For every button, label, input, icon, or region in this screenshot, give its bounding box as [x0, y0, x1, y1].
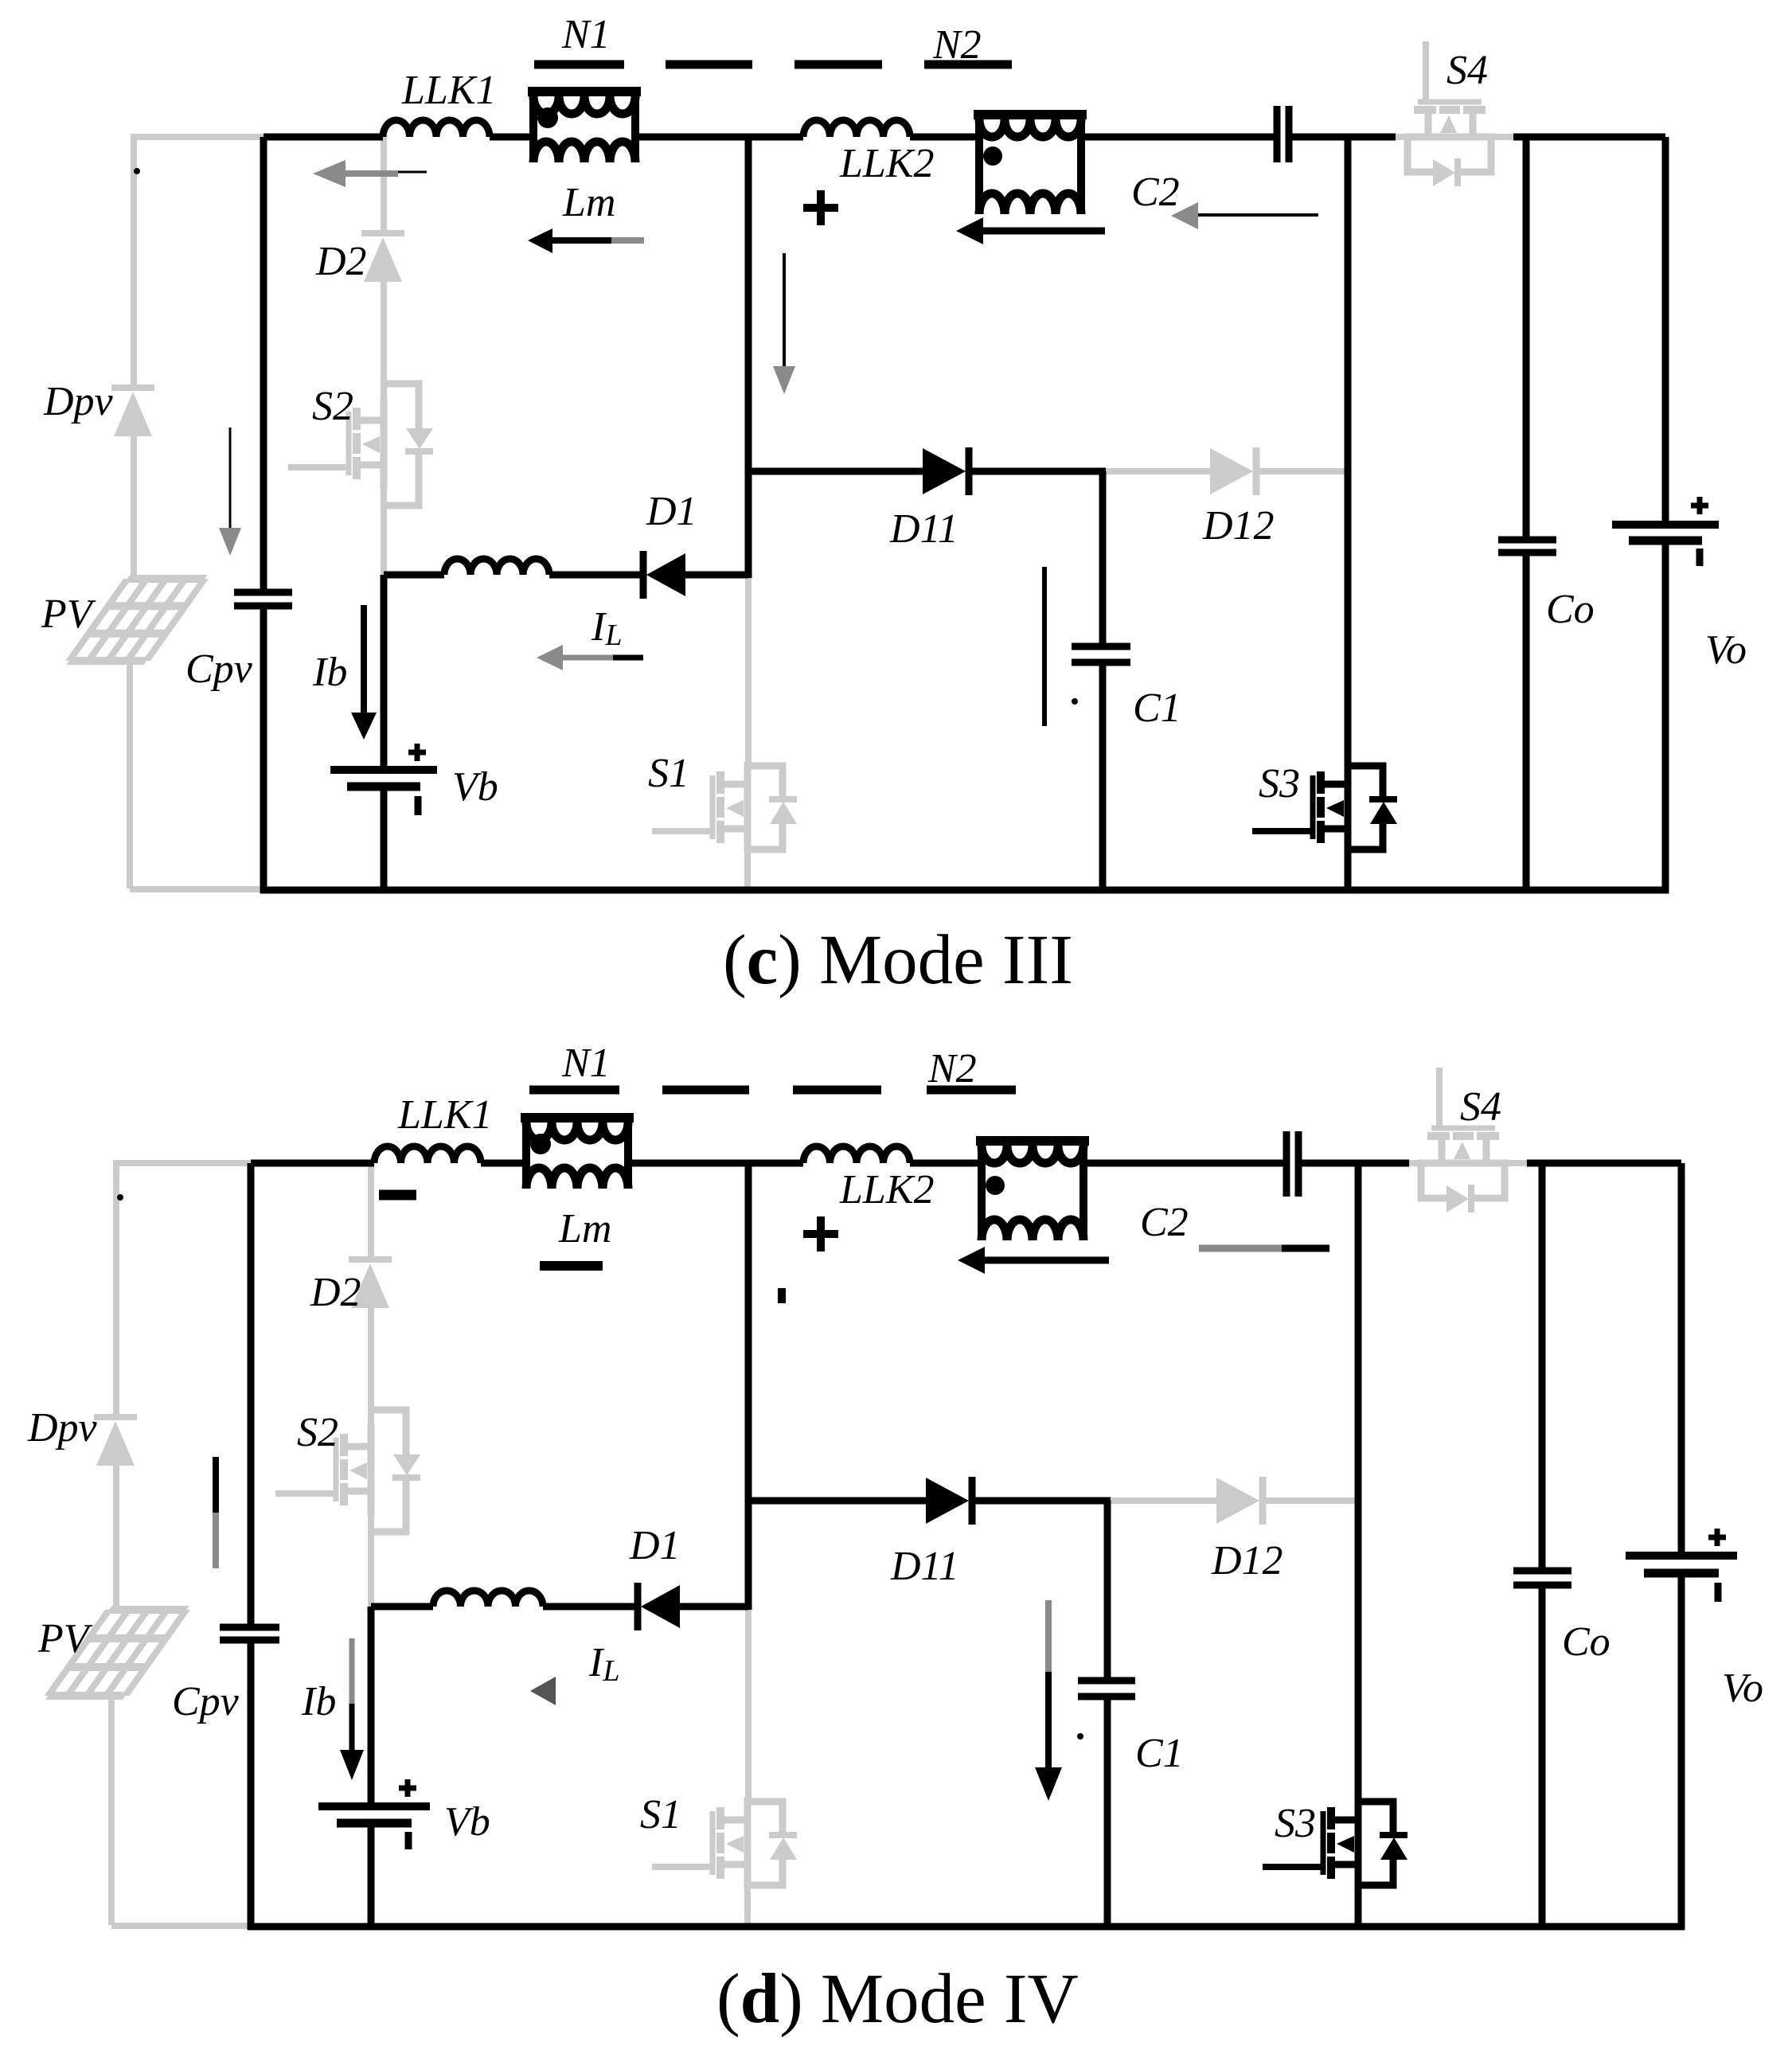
svg-text:S2: S2 [297, 1410, 338, 1455]
capacitor C2 plate right [1286, 106, 1293, 162]
minus bar below LLK1 (Mode IV) [379, 1190, 416, 1201]
core line dash under N2 (Mode IV) [927, 1086, 1016, 1095]
capacitor C2 plate left [1274, 106, 1281, 162]
wire node C1 to capacitor C1 (Mode IV) [1104, 1501, 1111, 1677]
current arrow near C2 pointing left [1171, 202, 1198, 229]
capacitor C1 bottom plate [1072, 659, 1130, 666]
Lm current arrow of T2 pointing left (Mode IV) [958, 1247, 985, 1274]
bottom rail wire [260, 887, 1669, 894]
svg-text:Vo: Vo [1705, 627, 1747, 673]
wire D2 to S2 (gray, Mode IV) [368, 1308, 374, 1426]
wire node C1 to capacitor C1 [1099, 471, 1107, 643]
wire S2 to node B (gray) [381, 487, 387, 575]
svg-text:D2: D2 [310, 1270, 361, 1315]
svg-text:D1: D1 [646, 489, 697, 534]
wire through S4 (gray, Mode IV) [1406, 1160, 1527, 1166]
wire top to D2 (gray, Mode IV) [368, 1163, 374, 1259]
wire Cpv to bottom [260, 606, 267, 893]
current arrow IL pointing left [537, 645, 563, 670]
svg-text:C2: C2 [1131, 170, 1180, 215]
capacitor Co bottom plate [1498, 549, 1556, 556]
wire transformer N2 to capacitor C2 (Mode IV) [1083, 1160, 1283, 1167]
plus sign of Vb (Mode IV) [399, 1786, 416, 1791]
svg-text:LLK2: LLK2 [839, 1167, 935, 1212]
node A junction wire to LLK2 (Mode IV) [748, 1160, 803, 1167]
wire D1 to node A vertical (Mode IV) [680, 1603, 748, 1611]
wire node D1 to S1 (gray) [745, 575, 752, 763]
wire LLK1 to transformer N1 (Mode IV) [481, 1160, 525, 1167]
svg-text:N1: N1 [561, 12, 611, 57]
wire C2 to S4 (Mode IV) [1302, 1160, 1409, 1167]
wire C2 to S4 [1292, 134, 1396, 141]
svg-text:D12: D12 [1211, 1538, 1283, 1583]
svg-text:D11: D11 [889, 506, 958, 552]
small dot near C1 [1072, 698, 1078, 705]
capacitor Co bottom plate (Mode IV) [1513, 1582, 1571, 1589]
PV source loop bottom segment (gray, Mode IV) [111, 1923, 251, 1929]
wire top right vertical (Vo branch) [1662, 137, 1669, 525]
battery Vb (Mode IV) [318, 1802, 430, 1810]
transformer T2 with windings N2 and Lm [974, 110, 1087, 119]
svg-text:Lm: Lm [558, 1206, 611, 1251]
diode D1 [640, 551, 647, 599]
wire S2 to node B (gray, Mode IV) [368, 1513, 374, 1607]
wire S4 to top right corner (Mode IV) [1527, 1160, 1681, 1167]
core line dash under N1 (Mode IV) [529, 1086, 619, 1095]
capacitor C1 bottom plate (Mode IV) [1078, 1693, 1135, 1701]
mosfet S4 [1404, 41, 1495, 186]
Lm current arrow of T1 pointing left [528, 228, 552, 253]
wire node C1 to D12 (gray, Mode IV) [1107, 1497, 1216, 1504]
diode D2 [361, 230, 404, 236]
wire PV panel to bottom (gray) [127, 661, 133, 888]
small dot near C1 (Mode IV) [1077, 1733, 1083, 1740]
wire node B to Vb (Mode IV) [368, 1607, 375, 1802]
PV panel (Mode IV) [49, 1610, 186, 1696]
svg-text:Dpv: Dpv [27, 1405, 98, 1451]
wire PV panel to bottom (gray, Mode IV) [108, 1696, 115, 1925]
wire D12 to node S3 (gray, Mode IV) [1263, 1497, 1358, 1504]
mosfet S4 (Mode IV) [1418, 1068, 1509, 1212]
wire Vo to bottom [1662, 541, 1669, 893]
core line dash 3 (Mode IV) [793, 1086, 881, 1095]
wire top to S3 (right-mid vertical) [1345, 137, 1352, 763]
PV panel [69, 579, 205, 661]
wire Co to bottom [1523, 553, 1530, 893]
wire D12 to node S3 (gray) [1256, 468, 1348, 474]
wire D11 to node C1 [969, 468, 1106, 475]
wire C1 to bottom (Mode IV) [1104, 1697, 1111, 1930]
wire D2 to S2 (gray) [381, 282, 387, 400]
diode D1 (Mode IV) [634, 1583, 642, 1630]
transformer T1 (Mode IV) [521, 1113, 634, 1123]
svg-text:(d) Mode IV: (d) Mode IV [716, 1960, 1079, 2038]
PV source loop wire (gray) top segment [131, 134, 264, 140]
current arrow Ib pointing down [361, 605, 367, 714]
diode D2 (Mode IV) [349, 1256, 392, 1263]
svg-text:Co: Co [1546, 587, 1595, 632]
capacitor Co top plate (Mode IV) [1513, 1568, 1571, 1575]
wire L to D1 (Mode IV) [543, 1603, 638, 1611]
inductor LLK2 (Mode IV) [803, 1146, 910, 1163]
wire top to Co (Mode IV) [1539, 1163, 1546, 1574]
wire S3 to bottom [1345, 851, 1352, 893]
wire node B left end (Mode IV) [371, 1603, 433, 1611]
svg-text:LLK2: LLK2 [839, 141, 935, 186]
wire Dpv to PV panel (gray) [131, 436, 137, 581]
mosfet S2 [288, 384, 433, 506]
wire node B left end [384, 572, 444, 579]
current bar beside Cpv (Mode IV) [213, 1457, 219, 1513]
capacitor Cpv bottom plate (Mode IV) [220, 1637, 279, 1644]
svg-text:N2: N2 [927, 1046, 977, 1091]
mosfet S3 (Mode IV) [1263, 1798, 1407, 1888]
wire node B to Vb [381, 575, 388, 767]
wire S1 to bottom (gray) [744, 851, 751, 890]
wire node C1 to D12 (gray) [1103, 468, 1210, 474]
wire S4 to top right corner [1513, 134, 1665, 141]
minus tick of Vo (Mode IV) [1715, 1583, 1722, 1602]
bottom rail wire (Mode IV) [248, 1923, 1685, 1931]
svg-text:LLK1: LLK1 [401, 68, 497, 113]
wire transformer N2 to capacitor C2 [1081, 134, 1274, 141]
current arrow at top-left pointing left [313, 160, 346, 187]
svg-text:Ib: Ib [312, 650, 347, 695]
plus sign near LLK2 [803, 204, 838, 212]
svg-text:Lm: Lm [562, 180, 615, 225]
svg-text:Vb: Vb [452, 764, 498, 810]
svg-text:S3: S3 [1275, 1801, 1316, 1846]
core line dash under N2 [924, 61, 1012, 69]
svg-text:D12: D12 [1202, 503, 1275, 549]
svg-text:C1: C1 [1135, 1731, 1184, 1776]
svg-text:N1: N1 [561, 1041, 611, 1086]
core line dash 2 (Mode IV) [662, 1086, 749, 1095]
wire Co to bottom (Mode IV) [1539, 1585, 1546, 1930]
plus sign of Vo (Mode IV) [1708, 1535, 1726, 1540]
wire Vb to bottom [381, 787, 388, 893]
svg-text:S4: S4 [1460, 1084, 1501, 1130]
current arrowhead IL (Mode IV) [530, 1677, 556, 1705]
svg-text:(c) Mode III: (c) Mode III [723, 921, 1073, 999]
wire Vo to bottom (Mode IV) [1678, 1573, 1685, 1930]
plus sign of Vo [1691, 503, 1708, 509]
wire D11 to node C1 (Mode IV) [972, 1497, 1111, 1505]
wire top left [264, 134, 383, 141]
mosfet S3 [1252, 762, 1397, 853]
wire node A vertical (Mode IV) [745, 1163, 752, 1610]
diode D12 (Mode IV) [1216, 1478, 1259, 1524]
mosfet S1 [652, 762, 797, 853]
wire top to S3 (Mode IV) [1355, 1163, 1362, 1799]
mosfet S1 (Mode IV) [652, 1798, 797, 1888]
capacitor Co top plate [1498, 537, 1556, 544]
svg-text:Ib: Ib [301, 1679, 336, 1724]
capacitor C1 top plate [1072, 643, 1130, 650]
minus tick of Vo [1696, 549, 1704, 566]
Lm current arrow of T2 pointing left [956, 217, 983, 244]
wire transformer N1 to node A (Mode IV) [630, 1160, 748, 1167]
PV source loop wire (gray) left vertical upper (Mode IV) [113, 1163, 119, 1417]
svg-text:Co: Co [1562, 1619, 1610, 1665]
PV source loop wire (gray) top segment (Mode IV) [113, 1160, 251, 1166]
svg-text:Cpv: Cpv [185, 646, 253, 692]
svg-text:S3: S3 [1259, 761, 1300, 806]
wire LLK1 to transformer N1 [490, 134, 532, 141]
wire top right vertical (Vo branch, Mode IV) [1678, 1163, 1685, 1556]
svg-text:D2: D2 [315, 239, 367, 284]
wire transformer N1 to node A [637, 134, 748, 141]
svg-text:C2: C2 [1140, 1200, 1189, 1245]
svg-text:Cpv: Cpv [172, 1679, 240, 1724]
svg-text:S4: S4 [1446, 48, 1488, 93]
capacitor C2 plate left (Mode IV) [1283, 1131, 1290, 1197]
minus tick of Vb (Mode IV) [405, 1832, 412, 1849]
wire node A to D11 [748, 468, 923, 475]
core line dash 2 [666, 61, 752, 69]
current line beside C1 [1042, 567, 1047, 726]
svg-text:Vb: Vb [444, 1799, 490, 1845]
svg-text:PV: PV [41, 592, 96, 637]
stray dot (Mode IV) [117, 1194, 123, 1201]
diode Dpv [111, 385, 154, 391]
PV source loop wire (gray) bottom segment [130, 886, 264, 892]
capacitor Cpv top plate [234, 589, 292, 596]
stray dot [134, 168, 140, 174]
PV source loop wire (gray) left vertical upper [131, 137, 137, 388]
wire node A to D11 (Mode IV) [748, 1497, 926, 1505]
svg-text:N2: N2 [932, 22, 982, 68]
wire Cpv to bottom (Mode IV) [248, 1640, 255, 1930]
capacitor C2 plate right (Mode IV) [1295, 1131, 1302, 1197]
wire node A vertical [745, 137, 752, 578]
current arrow beside Cpv pointing down [229, 428, 232, 528]
transformer T2 (Mode IV) [976, 1136, 1089, 1146]
wire through S4 (gray) [1392, 134, 1513, 140]
inductor LLK1 (Mode IV) [374, 1146, 481, 1163]
battery Vb [330, 766, 437, 774]
current arrow beside C1 pointing down (Mode IV) [1045, 1600, 1052, 1672]
wire top to D2 (gray) [381, 137, 387, 233]
diode D11 [923, 448, 966, 494]
core line dash 3 [794, 61, 882, 69]
battery Vo [1612, 521, 1719, 529]
svg-text:D11: D11 [890, 1544, 959, 1589]
minus bar below Lm of T1 (Mode IV) [540, 1261, 603, 1271]
wire Dpv to PV panel (gray, Mode IV) [113, 1466, 119, 1612]
svg-text:S1: S1 [640, 1792, 681, 1837]
diode D11 (Mode IV) [926, 1478, 969, 1524]
wire S1 to bottom (gray, Mode IV) [744, 1887, 751, 1927]
wire left vertical upper (Cpv branch) [260, 137, 267, 592]
diode Dpv (Mode IV) [94, 1414, 137, 1420]
inductor L of battery branch (Mode IV) [433, 1591, 543, 1607]
wire left vertical upper (Cpv branch, Mode IV) [248, 1163, 255, 1627]
capacitor C1 top plate (Mode IV) [1078, 1677, 1135, 1685]
bar near C2 (Mode IV) [1199, 1245, 1282, 1252]
core line dash under N1 [534, 61, 624, 69]
svg-text:S1: S1 [648, 751, 689, 796]
current arrow Ib pointing down (Mode IV) [349, 1638, 355, 1704]
svg-text:S2: S2 [312, 384, 353, 429]
inductor LLK2 [803, 120, 910, 137]
wire node D1 to S1 (gray, Mode IV) [745, 1607, 752, 1799]
svg-text:Dpv: Dpv [43, 379, 114, 424]
svg-text:LLK1: LLK1 [397, 1092, 493, 1138]
wire top left (Mode IV) [251, 1160, 374, 1167]
svg-text:D1: D1 [629, 1523, 681, 1568]
capacitor Cpv top plate (Mode IV) [220, 1624, 279, 1631]
plus sign near LLK2 (Mode IV) [803, 1230, 838, 1238]
diode D12 [1210, 448, 1253, 494]
wire LLK2 to transformer N2 [910, 134, 981, 141]
tick below plus sign (Mode IV) [778, 1288, 786, 1303]
transformer T1 with windings N1 and Lm [528, 87, 641, 96]
wire L to D1 [549, 572, 643, 579]
svg-text:PV: PV [37, 1616, 93, 1661]
current arrow above D11 pointing down [783, 253, 786, 367]
plus sign of Vb [408, 750, 426, 756]
inductor LLK1 [383, 120, 490, 137]
wire S3 to bottom (Mode IV) [1355, 1887, 1362, 1930]
wire LLK2 to transformer N2 (Mode IV) [910, 1160, 983, 1167]
mosfet S2 (Mode IV) [275, 1410, 420, 1532]
node A junction wire to LLK2 [748, 134, 803, 141]
svg-text:C1: C1 [1133, 685, 1181, 731]
wire Vb to bottom (Mode IV) [368, 1823, 375, 1930]
svg-text:Vo: Vo [1722, 1665, 1763, 1711]
wire D1 to node A vertical [685, 572, 748, 579]
battery Vo (Mode IV) [1626, 1552, 1737, 1560]
minus tick of Vb [415, 796, 422, 815]
wire C1 to bottom [1099, 662, 1107, 893]
wire top to Co [1523, 137, 1530, 540]
capacitor Cpv bottom plate [234, 603, 292, 610]
inductor L of battery branch [444, 559, 549, 575]
